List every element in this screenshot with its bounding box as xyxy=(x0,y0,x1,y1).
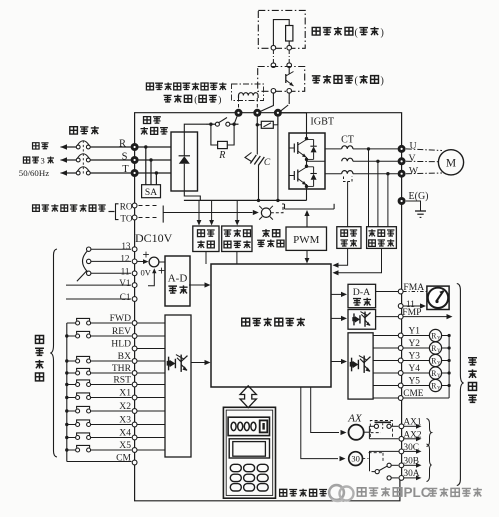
wire enclosure right rail U to 30A xyxy=(401,149,403,478)
wire braking unit right lead lever xyxy=(288,93,290,104)
svg-text:): ) xyxy=(381,27,384,38)
terminal R xyxy=(131,143,139,151)
terminal Y4 xyxy=(398,371,403,376)
terminal 30A xyxy=(399,476,404,481)
wire V IGBT to terminal xyxy=(353,160,398,162)
wire isolator to Y2 xyxy=(373,347,398,349)
wire option link left (dash-dot) xyxy=(272,50,274,63)
svg-text:TO: TO xyxy=(120,214,132,224)
node P fuse xyxy=(256,123,259,126)
terminal braking unit bottom-right xyxy=(287,89,292,94)
input switch RST xyxy=(67,384,76,386)
relay Ry Y3 xyxy=(429,354,441,366)
surge absorber SA box xyxy=(142,185,161,198)
wire Y4 to relay xyxy=(403,372,429,374)
svg-text:Y3: Y3 xyxy=(409,351,421,361)
terminal X1 xyxy=(132,395,137,400)
wire control power to main box xyxy=(205,252,207,265)
optocoupler symbol Y xyxy=(351,358,353,372)
watermark text 机器人及PLC自动化应用 xyxy=(357,488,366,496)
terminal braking resistor left xyxy=(271,45,276,50)
svg-text:Y: Y xyxy=(437,374,441,379)
CT coil V phase xyxy=(342,158,353,161)
svg-text:R: R xyxy=(218,150,225,161)
terminal FWD xyxy=(132,321,137,326)
D-A converter box xyxy=(348,284,376,307)
terminal braking unit top-right xyxy=(287,63,292,68)
wire rectifier minus to negative bus xyxy=(184,191,200,200)
PWM box xyxy=(286,227,327,250)
wire 11 to meter arrow xyxy=(403,305,420,307)
svg-text:C: C xyxy=(264,158,271,168)
Y isolator box xyxy=(348,333,373,399)
wire V to motor xyxy=(406,160,439,162)
wire DC bus to control power supply xyxy=(198,200,200,222)
30 contact common xyxy=(375,470,379,474)
terminal FMP xyxy=(398,314,403,319)
svg-text:X1: X1 xyxy=(119,388,131,399)
wire PWM to main box arrow xyxy=(306,250,308,259)
CT coil U phase xyxy=(342,146,353,149)
wire pot to 12 xyxy=(91,260,131,262)
wire voltage taps down xyxy=(368,149,370,227)
wire charge node to P1 xyxy=(234,114,238,124)
wire V1 feedback up xyxy=(148,271,154,286)
node IGBT midpoint upper xyxy=(305,158,308,161)
wire Y5 to relay xyxy=(403,385,429,387)
wire HLD to isolator xyxy=(137,348,165,350)
wire W CT to terminal xyxy=(353,173,398,175)
wire IGBT bottom to negative bus xyxy=(306,184,308,200)
wire D-A to FMA xyxy=(376,291,399,293)
relay Ry Y5 xyxy=(429,379,441,391)
wire AX link to contact xyxy=(364,431,370,433)
svg-text:HLD: HLD xyxy=(111,339,131,350)
A-D converter box xyxy=(165,256,190,306)
input switch X5 xyxy=(67,449,76,451)
main control box xyxy=(211,264,331,387)
svg-text:DC10V: DC10V xyxy=(135,231,173,245)
keypad display xyxy=(228,417,269,435)
fuse box in bus xyxy=(257,124,261,126)
label DC reactor for p.f. 改善功率因数用直流 xyxy=(146,83,153,90)
svg-text:PWM: PWM xyxy=(293,234,320,246)
bracket 30 outputs xyxy=(427,444,432,482)
wire IGBT output W xyxy=(325,173,342,175)
svg-text:A-D: A-D xyxy=(168,273,188,285)
wire E(G) to ground xyxy=(406,201,421,211)
terminal FMA xyxy=(398,289,403,294)
wire IGBT output U xyxy=(325,148,342,150)
wire X3 to isolator xyxy=(137,424,165,426)
wire output voltage detect to main box xyxy=(336,248,382,272)
terminal Y5 xyxy=(398,383,403,388)
node N on negative bus xyxy=(276,199,279,202)
terminal 11 xyxy=(398,304,403,309)
wire isolator to Y5 xyxy=(373,385,398,387)
terminal HLD xyxy=(132,346,137,351)
svg-text:BX: BX xyxy=(118,351,131,362)
wire AX2 out arrow xyxy=(404,438,417,440)
svg-text:V1: V1 xyxy=(119,278,131,288)
terminal RST xyxy=(132,382,137,387)
node IGBT emitter xyxy=(305,185,308,188)
label output signals 输出信号 (vertical) xyxy=(468,358,477,365)
frequency meter xyxy=(427,286,449,309)
input switch FWD xyxy=(67,322,76,324)
wire P bus to IGBT top xyxy=(282,112,307,114)
CT coil W phase xyxy=(342,171,353,174)
input common bus xyxy=(66,323,68,462)
wire U CT to terminal xyxy=(364,148,398,150)
rectifier bridge box xyxy=(171,132,198,191)
wire 30A out arrow xyxy=(404,477,417,479)
charge lamp circle xyxy=(261,208,270,217)
brace output signals xyxy=(457,284,464,486)
wire DC bus to voltage detect xyxy=(236,200,238,222)
relay coil 30 xyxy=(349,452,363,466)
terminal BX xyxy=(132,359,137,364)
svg-text:3: 3 xyxy=(41,155,45,165)
wire 12 to summing node xyxy=(137,260,147,262)
wire summing to A-D xyxy=(159,261,165,263)
30 contact lever xyxy=(379,466,387,470)
label power source 电源 xyxy=(33,143,40,149)
svg-text:X3: X3 xyxy=(119,415,131,426)
wire 30B out arrow xyxy=(404,464,417,466)
terminal V xyxy=(398,157,406,165)
keypad buttons xyxy=(230,464,241,471)
wire R breaker to terminal xyxy=(90,146,131,148)
wire Y1 to relay xyxy=(403,335,429,337)
terminal TO xyxy=(132,215,137,220)
svg-text:U: U xyxy=(409,141,416,152)
label keypad 数字操作盒 xyxy=(280,489,287,496)
wire A-D to main box xyxy=(189,284,207,286)
wire 30C xyxy=(370,451,399,471)
label control circuit 控制运算电路 xyxy=(242,318,250,326)
transistor symbol in braking unit xyxy=(288,68,290,75)
svg-text:50/60Hz: 50/60Hz xyxy=(19,168,49,178)
wire U to motor xyxy=(406,149,442,151)
svg-text:Y: Y xyxy=(437,337,441,342)
wire FWD to isolator xyxy=(137,322,165,324)
label 3-phase 3-wire 三相3线 xyxy=(23,157,29,163)
wire negative bus xyxy=(184,199,307,201)
terminal W xyxy=(398,170,406,178)
relay Ry Y1 xyxy=(429,329,441,341)
wire T breaker to terminal xyxy=(90,172,131,174)
label 电抗器(选件) xyxy=(164,95,172,102)
svg-text:X5: X5 xyxy=(119,440,131,451)
diode symbol in rectifier xyxy=(183,132,185,156)
circuit breaker mechanical link xyxy=(82,141,84,175)
wire R to rectifier xyxy=(138,146,171,148)
terminal Y2 xyxy=(398,346,403,351)
svg-text:): ) xyxy=(381,76,384,87)
braking resistor wiring xyxy=(273,20,289,48)
svg-text:E(G): E(G) xyxy=(409,191,429,202)
terminal 30B xyxy=(399,463,404,468)
wire main box to FM isolator xyxy=(331,317,343,319)
terminal 11 xyxy=(132,271,137,276)
terminal 30C xyxy=(399,449,404,454)
wire CM common xyxy=(67,461,132,463)
input switch X2 xyxy=(67,410,76,412)
svg-text:T: T xyxy=(122,164,129,175)
svg-text:30: 30 xyxy=(351,454,360,464)
wire isolator to CME xyxy=(373,397,398,399)
node W voltage tap xyxy=(386,172,389,175)
wire Y2 to relay xyxy=(403,347,429,349)
motor M xyxy=(438,150,463,175)
wire relay Y5 to common xyxy=(442,385,450,387)
output voltage detect box 输出电压检测 xyxy=(367,227,397,249)
terminal U xyxy=(398,145,406,153)
wire CT secondary to current detect box xyxy=(347,182,349,227)
IGBT upper transistor xyxy=(306,133,308,140)
wire RST to isolator xyxy=(137,384,165,386)
bracket AX outputs xyxy=(427,419,432,447)
AX contact xyxy=(374,424,378,428)
svg-text:W: W xyxy=(409,165,419,176)
wire resistor loop xyxy=(211,124,234,145)
terminal braking unit top-left xyxy=(271,63,276,68)
terminal 12 xyxy=(132,259,137,264)
terminal X2 xyxy=(132,409,137,414)
node S tap xyxy=(149,158,152,161)
input switch THR xyxy=(67,372,76,374)
svg-text:SA: SA xyxy=(145,188,157,198)
CT secondary dashed xyxy=(344,177,353,182)
svg-text:V: V xyxy=(408,153,415,164)
terminal S xyxy=(131,156,139,164)
svg-text:REV: REV xyxy=(112,326,131,337)
terminal RO xyxy=(132,203,137,208)
node charge circuit right xyxy=(232,123,235,126)
AX contact box (dashed) xyxy=(370,421,392,438)
wire label dash to RO/TO bracket xyxy=(109,211,115,213)
terminal X4 xyxy=(132,435,137,440)
ground symbol xyxy=(415,210,426,212)
wire taps to surge absorber xyxy=(145,147,147,185)
svg-text:Y: Y xyxy=(437,387,441,392)
input switch X4 xyxy=(67,437,76,439)
30 contact link (dashed) xyxy=(362,453,383,462)
label control power aux input 控制电源辅助输入 xyxy=(33,205,40,212)
control power box 控制电源 xyxy=(193,226,219,252)
wire gate drive rail xyxy=(285,208,335,210)
DC reactor coil xyxy=(239,93,259,98)
terminal THR xyxy=(132,371,137,376)
terminal N(-) xyxy=(274,109,282,117)
wire braking unit left lead down xyxy=(259,93,274,112)
30 contact A xyxy=(387,476,391,480)
wire AX contact to AX2 xyxy=(369,438,398,440)
wire main box to Y isolator xyxy=(331,361,343,363)
circuit breaker pole at y=160 xyxy=(76,158,80,162)
wire isolator to main box xyxy=(191,362,207,364)
node IGBT midpoint lower xyxy=(305,165,308,168)
label rectifier diode 整流二极管 xyxy=(144,117,151,124)
label braking unit 制动单元(选件) xyxy=(312,76,321,83)
wire relay Y4 to common xyxy=(442,372,450,374)
relay Ry Y4 xyxy=(429,367,441,379)
terminal T xyxy=(131,169,139,177)
wire enclosure top edge and right terminal rail xyxy=(135,113,402,149)
wire AX1 out arrow xyxy=(404,425,417,427)
optocoupler symbol FM xyxy=(353,313,355,325)
wire P bus fuse row xyxy=(256,117,258,125)
wire C1 xyxy=(66,298,131,300)
wire relay Y2 to common xyxy=(442,347,450,349)
wire TO dashed option xyxy=(139,217,159,219)
svg-text:12: 12 xyxy=(120,254,130,264)
30 contact B xyxy=(387,463,391,467)
wire isolator to Y4 xyxy=(373,372,398,374)
input switch BX xyxy=(67,360,76,362)
wire charge lamp return xyxy=(271,203,283,213)
resistor element in braking box xyxy=(286,26,293,42)
label circuit breaker 断路器 xyxy=(70,127,78,134)
wire relay common rail xyxy=(448,336,450,399)
wire X4 to isolator xyxy=(137,437,165,439)
svg-text:RO: RO xyxy=(120,201,133,211)
digital operator box 数字操作盒 xyxy=(223,407,275,498)
svg-text:AX: AX xyxy=(347,413,363,425)
terminal 13 xyxy=(132,247,137,252)
svg-text:(: ( xyxy=(194,95,197,106)
node R tap xyxy=(144,145,147,148)
terminal X5 xyxy=(132,448,137,453)
terminal Y3 xyxy=(398,358,403,363)
wire phase T input with source arrow xyxy=(61,172,77,174)
wire X5 to isolator xyxy=(137,449,165,451)
wire main box to 30 relay xyxy=(301,387,338,459)
svg-text:D-A: D-A xyxy=(353,287,370,298)
node T tap xyxy=(155,171,158,174)
terminal REV xyxy=(132,334,137,339)
label braking resistor 制动电阻(选件) xyxy=(312,27,320,35)
svg-text:X4: X4 xyxy=(119,428,131,439)
wire IGBT midpoint xyxy=(306,157,308,168)
svg-text:Y4: Y4 xyxy=(409,364,421,374)
terminal E(G) xyxy=(398,197,406,205)
wire PWM to gate rail with up arrow xyxy=(306,214,308,227)
FM isolator box xyxy=(348,310,376,330)
wire X1 to isolator xyxy=(137,397,165,399)
svg-text:+: + xyxy=(142,248,149,262)
wire FM isolator to FMP xyxy=(376,316,399,318)
terminal C1 xyxy=(132,297,137,302)
terminal AX1 xyxy=(399,424,404,429)
wire main box to AX relay xyxy=(311,387,339,433)
input switch X3 xyxy=(67,424,76,426)
node V voltage tap xyxy=(376,160,379,163)
wire main box to D-A xyxy=(331,293,343,295)
optocoupler symbol input xyxy=(168,357,170,371)
svg-text:PLC: PLC xyxy=(404,485,431,500)
wire BX to isolator xyxy=(137,360,165,362)
input switch X1 xyxy=(67,397,76,399)
svg-text:S: S xyxy=(122,151,128,162)
wire V1 xyxy=(66,284,131,286)
wire relay Y1 to common xyxy=(442,335,450,337)
node charge circuit left xyxy=(209,123,212,126)
bypass contact xyxy=(215,122,219,126)
wire relay Y3 to common xyxy=(442,360,450,362)
wire option link right (dash-dot) xyxy=(288,50,290,63)
svg-text:Y1: Y1 xyxy=(409,326,421,336)
wire 30C out arrow xyxy=(404,450,417,452)
relay coil AX xyxy=(349,425,364,440)
terminal CME xyxy=(398,396,403,401)
terminal braking unit bottom-left xyxy=(271,89,276,94)
wire N terminal down xyxy=(277,117,279,201)
svg-text:Y: Y xyxy=(437,362,441,367)
svg-text:CME: CME xyxy=(403,389,424,399)
wire FMA to meter xyxy=(403,291,427,293)
svg-text:M: M xyxy=(446,158,456,170)
wire CME to common rail xyxy=(403,397,449,399)
svg-text:Y5: Y5 xyxy=(409,376,421,386)
brace input signals xyxy=(50,249,57,457)
wire pot to 13 xyxy=(91,248,131,250)
wire voltage detect to main box xyxy=(236,252,238,265)
circuit breaker pole at y=147 xyxy=(76,145,80,149)
input switch REV xyxy=(67,335,76,337)
wire RO dashed option xyxy=(139,205,159,207)
label charge indicator 充电指示灯 xyxy=(262,229,270,237)
svg-text:0V: 0V xyxy=(141,268,152,278)
capacitor C electrolytic xyxy=(250,155,256,164)
wire AX contact to AX1 xyxy=(391,425,398,427)
svg-text:11: 11 xyxy=(121,266,130,276)
input isolator box xyxy=(165,315,191,457)
wire reactor leads dashed xyxy=(238,98,240,110)
wire keypad double arrow xyxy=(240,386,256,408)
circuit breaker pole at y=173 xyxy=(76,171,80,175)
braking unit option box (dash-dot) xyxy=(258,67,305,92)
terminal CM xyxy=(132,460,137,465)
summing circle xyxy=(149,257,159,267)
svg-text:): ) xyxy=(218,95,221,106)
wire P bus down to capacitor xyxy=(256,125,258,155)
keypad second display xyxy=(229,439,269,458)
wire phase S input with source arrow xyxy=(61,159,77,161)
svg-text:CT: CT xyxy=(341,135,354,146)
svg-text:R: R xyxy=(119,138,126,149)
wire pot to 11 xyxy=(91,272,131,274)
wire isolator to Y3 xyxy=(373,360,398,362)
wire CM to bottom rail to 30A xyxy=(135,463,400,501)
wire S breaker to terminal xyxy=(90,159,131,161)
svg-text:CM: CM xyxy=(116,453,131,464)
wire W to motor xyxy=(406,172,442,175)
svg-text:FWD: FWD xyxy=(110,313,131,324)
svg-text:THR: THR xyxy=(112,363,132,374)
wire FMP out arrow xyxy=(403,316,447,318)
terminal V1 xyxy=(132,283,137,288)
svg-text:Y: Y xyxy=(437,349,441,354)
svg-text:RST: RST xyxy=(113,375,131,386)
braking resistor option box (dash-dot) xyxy=(258,10,305,48)
potentiometer xyxy=(87,247,91,251)
svg-text:IGBT: IGBT xyxy=(310,117,335,128)
svg-text:X2: X2 xyxy=(119,401,131,412)
terminal braking resistor right xyxy=(287,45,292,50)
label input signals 输入信号 (vertical) xyxy=(35,335,43,343)
